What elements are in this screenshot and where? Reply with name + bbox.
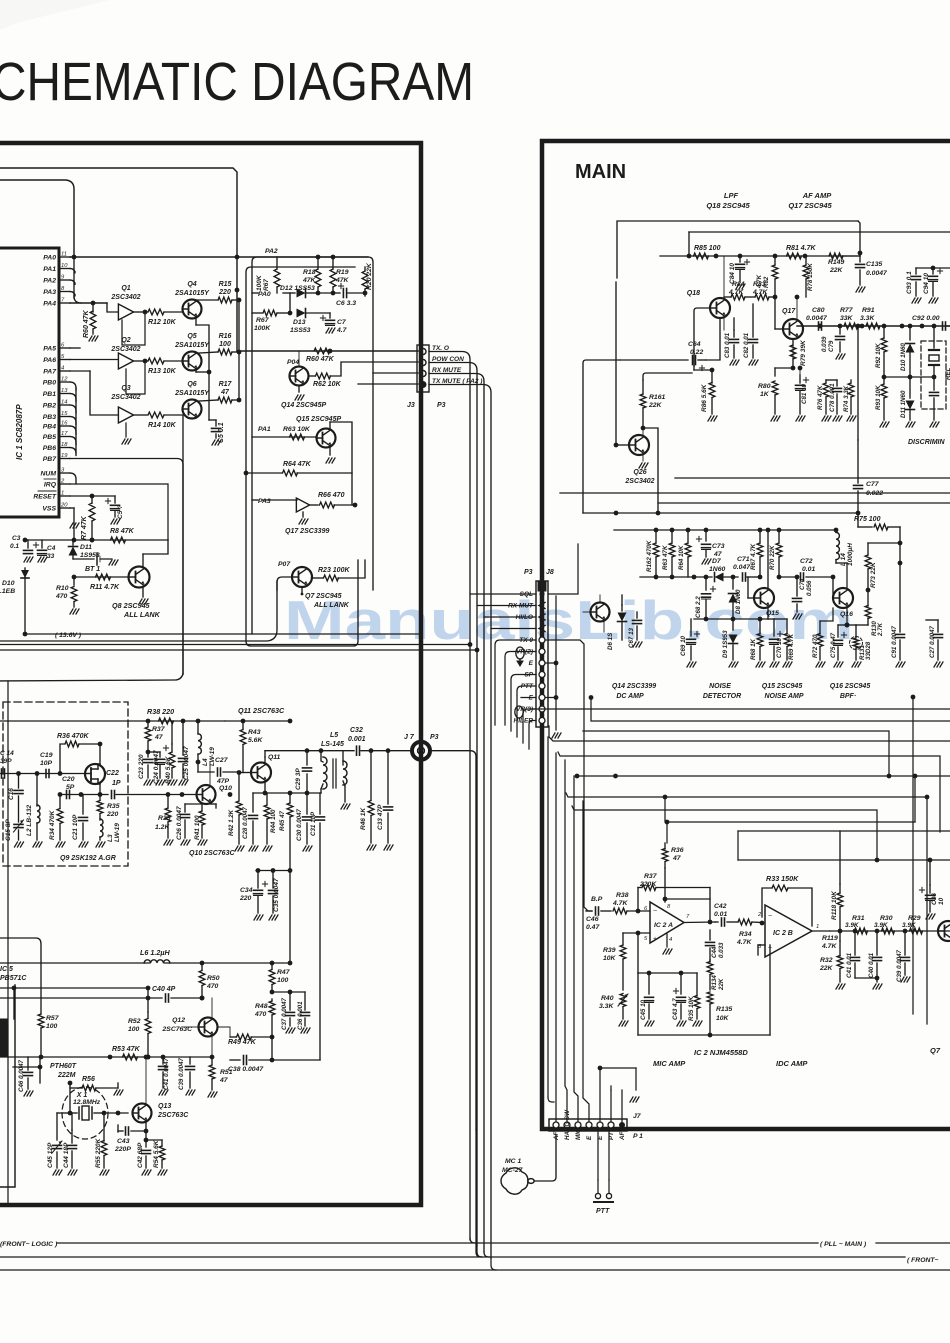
svg-text:R79 39K: R79 39K xyxy=(800,339,807,366)
resistor R43 5.6K v xyxy=(240,719,246,773)
svg-text:L3: L3 xyxy=(107,834,114,842)
svg-text:11: 11 xyxy=(61,252,67,258)
label R81 4.7K xyxy=(786,245,817,252)
label C27 47P xyxy=(215,757,230,785)
wire bundle row709 xyxy=(531,708,950,710)
resistor R41 100 v xyxy=(198,804,207,845)
diode D11 1S953 xyxy=(69,540,78,559)
svg-text:C23 220: C23 220 xyxy=(138,754,145,779)
svg-text:R34 470K: R34 470K xyxy=(49,809,56,840)
svg-text:R35: R35 xyxy=(107,803,120,810)
svg-text:R16: R16 xyxy=(219,333,232,340)
capacitor C43 4.7 b xyxy=(673,973,686,1026)
wire bus2 xyxy=(0,1256,905,1258)
svg-text:R60 47K: R60 47K xyxy=(83,309,90,338)
svg-text:PB5: PB5 xyxy=(43,434,56,441)
resistor R29 3.9K xyxy=(910,928,923,934)
resistor R51 47 xyxy=(208,1057,217,1097)
label R66 470 xyxy=(318,492,345,499)
wire Q8 e gnd xyxy=(139,587,148,605)
svg-text:0.056: 0.056 xyxy=(806,580,813,596)
wire right loop 183 xyxy=(0,490,183,674)
ground Q3 xyxy=(122,423,131,444)
label C19 10P xyxy=(40,752,53,767)
svg-text:NUM: NUM xyxy=(41,471,57,478)
capacitor C22 cap xyxy=(112,791,197,799)
svg-text:C77: C77 xyxy=(866,481,880,488)
resistor R14 10K xyxy=(148,412,182,418)
svg-text:Q14 2SC945P: Q14 2SC945P xyxy=(281,402,326,409)
resistor R23 100K xyxy=(312,560,366,581)
svg-text:C81 10: C81 10 xyxy=(801,383,808,404)
wire ic2a out xyxy=(684,920,715,925)
resistor R161 22K xyxy=(640,380,646,430)
svg-text:33D28: 33D28 xyxy=(865,641,872,660)
wire PA0 bus top xyxy=(0,168,237,351)
svg-text:C26 0.0047: C26 0.0047 xyxy=(176,806,183,840)
capacitor C29 3P xyxy=(303,751,312,793)
svg-text:R44 100: R44 100 xyxy=(270,809,277,833)
svg-text:R60 47K: R60 47K xyxy=(306,356,335,363)
svg-text:Q26: Q26 xyxy=(633,469,646,476)
resistor R83 4.7K xyxy=(745,294,775,300)
resistor R39 10K b xyxy=(620,933,626,990)
svg-text:Q9 2SK192 A.GR: Q9 2SK192 A.GR xyxy=(60,855,116,862)
svg-text:IC 1 SC82087P: IC 1 SC82087P xyxy=(15,404,24,460)
svg-text:( PLL ~ MAIN ): ( PLL ~ MAIN ) xyxy=(820,1241,867,1248)
svg-text:R11 4.7K: R11 4.7K xyxy=(90,584,120,591)
svg-text:R48: R48 xyxy=(255,1003,268,1010)
svg-text:2SC3402: 2SC3402 xyxy=(624,478,654,485)
wire q15 emitter xyxy=(767,608,769,620)
wire bundle verts right xyxy=(911,695,930,1024)
svg-text:Q11 2SC763C: Q11 2SC763C xyxy=(238,706,285,715)
buffer Q1 xyxy=(107,303,147,320)
svg-text:Q1: Q1 xyxy=(121,285,130,292)
svg-text:C21 10P: C21 10P xyxy=(72,814,79,840)
label C35 0.0047 xyxy=(273,878,280,912)
wire row 256 xyxy=(660,254,860,259)
varistor R131 33D28 xyxy=(847,625,863,667)
wire 290 vert xyxy=(288,871,293,966)
svg-text:R67 4.7K: R67 4.7K xyxy=(750,543,757,570)
label C5r xyxy=(117,505,124,519)
svg-text:Q8 2SC945: Q8 2SC945 xyxy=(112,601,151,610)
wire j8 gnd col xyxy=(546,596,561,738)
svg-text:C78 0.001: C78 0.001 xyxy=(829,383,836,412)
label J7 b xyxy=(633,1113,642,1120)
svg-text:22K: 22K xyxy=(648,402,663,409)
resistor R30 3.9K xyxy=(882,928,895,934)
capacitor C19 10P xyxy=(46,770,49,778)
label R77 33K xyxy=(840,307,854,322)
wire Q18 collector xyxy=(723,256,725,299)
svg-text:DETECTOR: DETECTOR xyxy=(703,693,741,700)
label R91 3.3K xyxy=(860,307,875,322)
svg-text:R30: R30 xyxy=(880,915,893,922)
resistor R46 1K v xyxy=(367,751,376,850)
label r3x vals xyxy=(846,913,848,928)
svg-text:R85 100: R85 100 xyxy=(694,245,721,252)
svg-text:R72 470: R72 470 xyxy=(812,634,819,658)
svg-text:L4: L4 xyxy=(202,758,209,766)
svg-text:R56: R56 xyxy=(82,1076,95,1083)
resistor R64 47K xyxy=(244,470,352,476)
label R16 100 xyxy=(219,333,232,348)
wire row 1057 xyxy=(0,1055,212,1060)
svg-text:LS-145: LS-145 xyxy=(321,741,344,748)
capacitor C30 0.0047 xyxy=(303,793,313,851)
label C30 0.0047 xyxy=(296,808,303,841)
svg-text:0.033: 0.033 xyxy=(718,942,725,958)
wire fan to pins xyxy=(548,1098,554,1102)
transistor Q7a xyxy=(292,567,312,587)
resistor R36 47 v xyxy=(662,843,668,868)
svg-text:5P: 5P xyxy=(66,784,75,791)
svg-text:3.3K: 3.3K xyxy=(599,1003,614,1010)
svg-text:C82 0.01: C82 0.01 xyxy=(743,332,750,358)
label PA2 xyxy=(265,248,278,255)
resistor R92 10K v xyxy=(881,326,887,379)
label C68 2.2 xyxy=(695,596,702,618)
label PLL-MAIN xyxy=(820,1241,867,1248)
svg-text:10K: 10K xyxy=(716,1015,730,1022)
wire NUM arc xyxy=(70,473,76,484)
label MAIN xyxy=(575,161,626,183)
wire Q4 emitter xyxy=(196,317,209,372)
label Q17 2SC3399 xyxy=(285,528,329,535)
diode D9 1S953 xyxy=(729,619,739,667)
label R7 47K xyxy=(81,515,88,540)
label R32 22K xyxy=(819,957,834,972)
wire PA2 box inner xyxy=(252,257,373,634)
label TX MUTE PA2 xyxy=(432,378,482,385)
svg-text:0.047: 0.047 xyxy=(733,564,751,571)
svg-text:R36: R36 xyxy=(671,847,684,854)
label D10 1N60 xyxy=(900,343,907,371)
svg-text:MIC AMP: MIC AMP xyxy=(653,1059,686,1068)
wire L6 row xyxy=(0,962,290,964)
resistor R36 470K xyxy=(60,741,102,773)
svg-text:IC 2 NJM4558D: IC 2 NJM4558D xyxy=(694,1048,748,1057)
label C26 0.0047 xyxy=(176,806,183,840)
label C14 xyxy=(0,750,14,765)
label R67 100K b xyxy=(254,317,271,332)
svg-text:C79: C79 xyxy=(828,340,835,352)
svg-text:C 14: C 14 xyxy=(0,750,14,757)
transistor Q8 xyxy=(129,567,150,588)
watermark ManualsLib.com xyxy=(284,589,854,651)
svg-text:C20: C20 xyxy=(62,776,75,783)
svg-text:PB2: PB2 xyxy=(43,403,56,410)
label C7 4.7 xyxy=(336,319,348,334)
capacitor C41 0.01 b xyxy=(851,931,878,978)
label R14 10K xyxy=(148,422,177,429)
label C5 0.1 xyxy=(218,422,225,443)
wire Q12 base xyxy=(183,1026,198,1028)
label C36 10 b xyxy=(931,893,945,905)
label Q9 2SK192 xyxy=(60,855,116,862)
transistor Q10 xyxy=(197,785,216,804)
wire Q7a emitter xyxy=(301,587,304,595)
transistor Q5 xyxy=(183,352,202,371)
svg-text:C35 0.0047: C35 0.0047 xyxy=(273,878,280,912)
wire q15 base xyxy=(748,577,754,598)
wire Q12 c xyxy=(200,996,212,1018)
label Q15 main xyxy=(766,610,779,617)
wire osc left col xyxy=(19,963,21,1130)
label Q4 2SA1015Y xyxy=(174,281,210,297)
capacitor C84 10 xyxy=(736,256,750,289)
resistor R77 33K xyxy=(844,323,858,329)
svg-text:D9 1S953: D9 1S953 xyxy=(722,630,729,658)
svg-text:ALL LANK: ALL LANK xyxy=(123,610,161,619)
svg-text:C19: C19 xyxy=(40,752,53,759)
svg-text:2.7K: 2.7K xyxy=(877,622,884,637)
label C71 0.047 xyxy=(733,556,751,571)
svg-text:C22: C22 xyxy=(106,770,119,777)
capacitor C42 0.01 xyxy=(715,918,738,926)
label R23 100K xyxy=(318,567,350,574)
label R63 47K v xyxy=(662,545,669,570)
svg-text:4.7K: 4.7K xyxy=(736,939,752,946)
resistor R66 470 xyxy=(320,502,358,508)
resistor R84 4.7K xyxy=(724,294,745,317)
label R79 39K xyxy=(800,339,807,366)
label NOISE DETECTOR xyxy=(703,683,741,700)
wire bus y641 xyxy=(0,581,277,641)
svg-text:D10: D10 xyxy=(2,580,15,587)
transistor Q12 xyxy=(199,1018,218,1037)
capacitor C45 12P xyxy=(52,1111,72,1175)
label C45 10 b xyxy=(640,999,647,1020)
svg-text:R14 10K: R14 10K xyxy=(148,422,177,429)
svg-text:Q15 2SC945: Q15 2SC945 xyxy=(762,683,803,690)
label C64v xyxy=(0,0,1,1)
label Q11 2SC763C top xyxy=(238,706,285,715)
capacitor C79 0.039 xyxy=(836,326,846,359)
label R149 22K xyxy=(828,259,844,274)
label D13 1SS53 xyxy=(290,319,311,334)
wire bus y650 xyxy=(0,648,479,653)
IC U1 pins PA0-VSS xyxy=(33,252,70,513)
switch PTT xyxy=(594,1180,613,1215)
label R82 4.7K v xyxy=(756,274,770,289)
label R75 100 xyxy=(854,516,881,523)
capacitor C14 edge xyxy=(2,769,5,778)
wire pin5 xyxy=(623,931,650,936)
label R119 4.7K xyxy=(821,935,838,950)
wire fan bottom joins xyxy=(470,1130,496,1270)
svg-text:1: 1 xyxy=(61,491,64,497)
svg-text:C16: C16 xyxy=(8,788,15,800)
label Q16 main xyxy=(840,611,853,618)
transistor P04 Q14 xyxy=(287,359,309,386)
wire q14 main leads xyxy=(583,595,604,632)
wire bundle row831 xyxy=(738,831,950,860)
label P3 b xyxy=(430,734,439,741)
buffer bias box1 xyxy=(122,310,147,345)
svg-text:R32: R32 xyxy=(820,957,833,964)
label R35 220 xyxy=(106,803,120,818)
wire Q8 base row xyxy=(72,575,128,580)
label D7 1N60 xyxy=(709,558,725,573)
wire Q11 collector up xyxy=(265,748,354,763)
svg-text:+: + xyxy=(653,936,657,943)
svg-text:LW-19: LW-19 xyxy=(114,823,121,842)
resistor R62 10K xyxy=(309,362,419,379)
resistor R67 100K horizontal xyxy=(252,310,292,316)
svg-text:C27 0.0047: C27 0.0047 xyxy=(929,625,936,658)
wire row 988 xyxy=(0,986,148,1019)
label D9 1S953 xyxy=(722,630,729,658)
resistor R18 47K vertical xyxy=(315,255,321,293)
transistor Q15 main xyxy=(754,588,774,608)
wire PA5 stub xyxy=(70,347,80,349)
label POW CON xyxy=(432,356,464,363)
wire bundle row822 xyxy=(663,774,918,822)
svg-text:C45 12P: C45 12P xyxy=(47,1142,54,1168)
svg-text:R118 10K: R118 10K xyxy=(831,890,838,920)
wire x1 right node xyxy=(102,1088,128,1115)
resistor R74 3.3K v xyxy=(847,380,856,421)
svg-text:14: 14 xyxy=(61,400,67,406)
wire Q9 drain up xyxy=(98,744,100,764)
resistor R33 150K xyxy=(762,885,812,926)
svg-text:R42 1.2K: R42 1.2K xyxy=(228,809,235,836)
svg-text:PA6: PA6 xyxy=(43,357,56,364)
svg-text:R15: R15 xyxy=(219,281,232,288)
capacitor C36 10 b xyxy=(919,860,935,919)
label R30 3.9K xyxy=(880,915,893,922)
svg-text:12: 12 xyxy=(61,377,68,383)
label R68 1K xyxy=(750,638,757,660)
wire PB7 long xyxy=(70,459,183,675)
wire Q7a base xyxy=(277,577,292,590)
label Q6 2SA1015Y xyxy=(174,381,210,397)
svg-text:R19: R19 xyxy=(336,269,349,276)
resistor R48 470 xyxy=(269,999,275,1039)
IC U1 label xyxy=(15,404,24,460)
wire q16 base xyxy=(833,577,834,598)
wire j8 rows left xyxy=(477,606,536,744)
svg-text:100: 100 xyxy=(219,341,231,348)
opamp IC2A xyxy=(644,902,690,943)
label R45 47 xyxy=(279,810,286,831)
diode D8 1N60 xyxy=(729,577,738,621)
svg-text:Q11: Q11 xyxy=(268,754,281,761)
label R72 470 xyxy=(812,634,819,658)
label FRONT2 xyxy=(907,1257,939,1264)
wire bundle row731 xyxy=(583,731,891,778)
label R83 4.7K xyxy=(750,281,766,294)
wire bundle row776 xyxy=(575,774,950,779)
resistor R19 47K vertical xyxy=(330,255,336,293)
resistor R34 470K v xyxy=(56,795,65,848)
IC U1 SC82087P box xyxy=(0,248,59,517)
svg-text:R54 5.6K: R54 5.6K xyxy=(153,1139,160,1168)
capacitor C68 2.2 xyxy=(702,577,716,621)
label R84 4.7K xyxy=(732,281,745,288)
label R18 47K xyxy=(302,269,317,284)
label C84 10 xyxy=(729,263,736,284)
svg-text:222M: 222M xyxy=(57,1072,76,1079)
capacitor C46 0.0047 l xyxy=(24,1057,34,1096)
resistor R60 47K h xyxy=(314,348,330,354)
svg-text:J3: J3 xyxy=(407,402,415,409)
inductor L3 LW-19 xyxy=(96,819,105,847)
connector J7 P1 body xyxy=(549,1119,627,1131)
label C92 0.0047 xyxy=(912,315,940,322)
svg-text:4.7K: 4.7K xyxy=(728,289,744,296)
label C28 0.0047 xyxy=(242,806,249,839)
label B.P xyxy=(591,896,603,903)
label Q14 2SC945P xyxy=(281,402,326,409)
svg-text:PA0: PA0 xyxy=(43,255,56,262)
label C36 0.001 xyxy=(297,1001,304,1030)
label MIC AMP xyxy=(653,1059,686,1068)
capacitor C71 0.047 xyxy=(743,573,763,581)
svg-text:PA1: PA1 xyxy=(258,426,271,433)
wire j8 sql right xyxy=(548,544,578,594)
svg-text:0.039: 0.039 xyxy=(821,336,828,352)
svg-text:C29 3P: C29 3P xyxy=(295,768,302,790)
label C75 0.47 xyxy=(830,632,837,658)
svg-text:2SC3402: 2SC3402 xyxy=(110,346,140,353)
wire r56 gnd xyxy=(114,1083,123,1095)
svg-text:22K: 22K xyxy=(819,965,834,972)
resistor R149 22K xyxy=(829,253,860,259)
label C43 4.7 b xyxy=(672,998,679,1020)
label R8 47K xyxy=(110,528,135,535)
label C72 0.01 xyxy=(800,558,815,573)
wire 931 row xyxy=(830,929,950,934)
label C27 0.0047 b xyxy=(929,625,936,658)
resistor R11 4.7K xyxy=(96,574,111,580)
svg-text:C36: C36 xyxy=(931,893,938,905)
label C16 xyxy=(8,788,15,800)
wire RESET row xyxy=(70,494,115,499)
label R93 10K xyxy=(875,385,882,410)
svg-text:L5: L5 xyxy=(330,732,338,739)
resistor R44 100 v xyxy=(263,793,272,851)
resistor R91 3.3K xyxy=(866,323,880,329)
svg-text:R81 4.7K: R81 4.7K xyxy=(786,245,817,252)
capacitor C92 0.0047 xyxy=(943,322,950,330)
svg-text:C43 4.7: C43 4.7 xyxy=(672,998,679,1020)
svg-text:R40: R40 xyxy=(601,995,614,1002)
capacitor C37 0.0047 xyxy=(286,992,296,1033)
svg-text:R80: R80 xyxy=(758,383,771,390)
wire 540 bus xyxy=(23,538,168,543)
resistor R8 47K xyxy=(111,537,169,543)
svg-text:4.7: 4.7 xyxy=(336,327,348,334)
connector J3 P3 body xyxy=(417,345,429,392)
label P3 J8 xyxy=(524,569,554,576)
svg-text:4.7K: 4.7K xyxy=(752,289,768,296)
capacitor C93 0.1 xyxy=(912,268,922,303)
svg-text:R91: R91 xyxy=(862,307,875,314)
svg-text:R33 150K: R33 150K xyxy=(766,874,799,883)
label RX MUTE xyxy=(432,367,462,374)
buffer Q17 tri xyxy=(296,498,318,512)
label P1 b xyxy=(633,1133,643,1140)
svg-text:R93 10K: R93 10K xyxy=(875,385,882,410)
svg-text:20: 20 xyxy=(60,503,68,509)
svg-text:R37: R37 xyxy=(152,726,166,733)
svg-text:R36 470K: R36 470K xyxy=(57,733,89,740)
svg-text:100: 100 xyxy=(128,1026,140,1033)
